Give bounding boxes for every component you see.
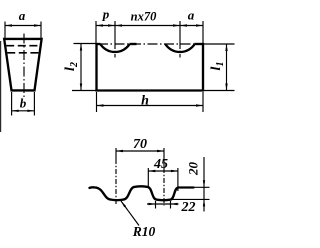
dimension h: arrows bbox=[97, 104, 104, 106]
dimension l2: extension lines bbox=[74, 43, 97, 45]
dimension b: dimension line bbox=[12, 110, 35, 112]
svg-text:nx70: nx70 bbox=[131, 10, 157, 24]
plate top edge segment right bbox=[195, 43, 205, 45]
hidden dashed line 2 bbox=[7, 52, 39, 54]
plate top edge segment left bbox=[96, 43, 101, 45]
dimension h: extension lines bbox=[96, 92, 98, 112]
dimension 45: arrows bbox=[148, 170, 155, 172]
svg-text:45: 45 bbox=[153, 157, 168, 172]
dimension 20: extension line bottom bbox=[172, 198, 210, 200]
svg-text:22: 22 bbox=[181, 200, 196, 215]
R10 leader line bbox=[121, 201, 139, 226]
top dimension: extension line left bbox=[95, 21, 97, 43]
dimension h: dimension line bbox=[97, 105, 204, 107]
plate right edge bbox=[202, 43, 204, 92]
svg-text:h: h bbox=[141, 94, 149, 109]
dimension a: arrows bbox=[5, 24, 12, 26]
plate bottom edge bbox=[96, 89, 205, 91]
svg-text:b: b bbox=[20, 95, 27, 110]
dimension nx70 arrows bbox=[115, 24, 122, 26]
dimension 70: arrows bbox=[116, 150, 123, 152]
plate axis dash-dot line along top edge bbox=[98, 43, 202, 45]
notch 1 centerline bbox=[114, 21, 116, 44]
dimension 20: extension line top bbox=[192, 186, 210, 188]
top dimension line bbox=[96, 25, 203, 27]
dimension l1: arrows bbox=[225, 44, 227, 51]
hidden dashed line 1 bbox=[6, 45, 40, 47]
dimension l2: arrows bbox=[80, 44, 82, 51]
notch 1 arc bbox=[100, 44, 129, 52]
dimension l2: dimension line bbox=[80, 44, 82, 91]
wave profile bbox=[90, 186, 194, 200]
dimension 22: extension lines bbox=[155, 201, 157, 209]
dimension 20: dimension line bbox=[203, 157, 205, 212]
dimension 70: dimension line bbox=[116, 150, 164, 152]
dimension p arrows bbox=[96, 24, 103, 26]
trapezoid outline bbox=[4, 39, 41, 91]
notch 2 centerline bbox=[179, 21, 181, 44]
trough 2 centerline bbox=[163, 148, 165, 168]
svg-text:a: a bbox=[188, 8, 195, 23]
vertical centerline of trapezoid bbox=[23, 34, 25, 98]
plate left edge bbox=[95, 43, 97, 92]
trough 1 centerline bbox=[115, 148, 117, 159]
top dimension: extension line right bbox=[202, 21, 204, 43]
svg-text:a: a bbox=[19, 8, 26, 23]
R10 leader arrowhead bbox=[121, 201, 126, 207]
dimension 22: arrows bbox=[149, 203, 156, 205]
dimension l1: dimension line bbox=[226, 44, 228, 91]
dimension b: arrows bbox=[12, 110, 19, 112]
svg-text:p: p bbox=[102, 6, 110, 21]
scan artifact: left border streak bbox=[0, 41, 2, 132]
dimension 22: dimension line bbox=[147, 203, 179, 205]
svg-text:20: 20 bbox=[186, 162, 201, 177]
dimension l1: extension lines bbox=[203, 43, 235, 45]
dimension a(right) arrows bbox=[180, 24, 187, 26]
dimension a: dimension line bbox=[5, 25, 41, 27]
dimension a: extension lines bbox=[4, 22, 6, 39]
dimension 45: dimension line bbox=[148, 170, 178, 172]
svg-text:70: 70 bbox=[133, 137, 147, 152]
dimension 20: arrows bbox=[203, 180, 205, 187]
dimension b: extension lines bbox=[11, 92, 13, 116]
plate top edge segment middle bbox=[130, 43, 137, 45]
notch 2 arc bbox=[165, 44, 194, 52]
svg-text:R10: R10 bbox=[132, 224, 156, 239]
dimension 45: extension lines bbox=[147, 168, 149, 187]
